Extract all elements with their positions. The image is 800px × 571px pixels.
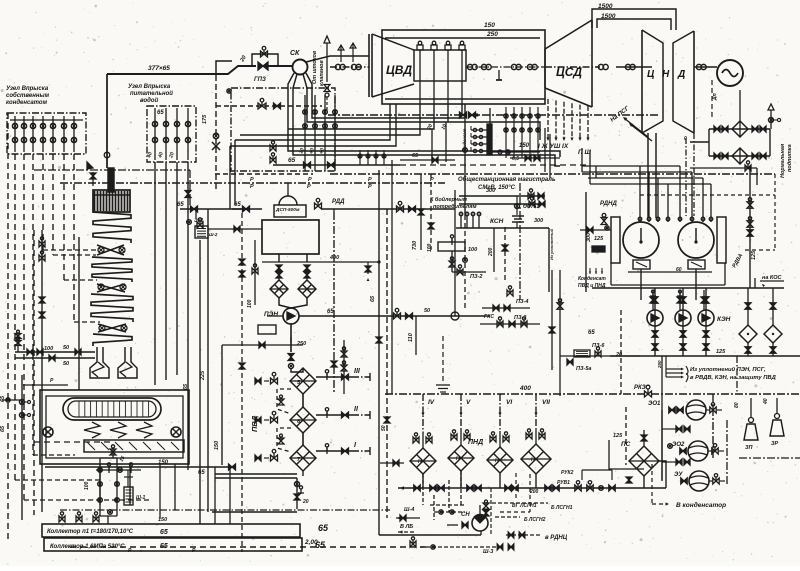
svg-text:100: 100: [44, 346, 53, 352]
svg-text:Общестанционная магистраль: Общестанционная магистраль: [458, 176, 556, 183]
svg-text:40: 40: [763, 398, 769, 405]
svg-text:125: 125: [613, 433, 623, 439]
svg-text:Ш-1: Ш-1: [136, 495, 146, 501]
svg-text:Ш-2: Ш-2: [209, 232, 218, 237]
svg-text:ПЗ-4: ПЗ-4: [516, 299, 528, 305]
svg-text:ЦСД: ЦСД: [556, 65, 582, 79]
svg-text:Узел Впрыска: Узел Впрыска: [128, 84, 171, 90]
svg-text:65: 65: [588, 330, 595, 336]
svg-text:110: 110: [408, 333, 414, 342]
svg-text:ПЗ-6: ПЗ-6: [592, 343, 605, 349]
svg-text:подпитка: подпитка: [787, 144, 793, 172]
svg-text:ЭО1: ЭО1: [648, 401, 661, 407]
svg-text:Н: Н: [495, 458, 499, 464]
svg-text:Ц: Ц: [647, 69, 655, 80]
svg-text:6,5: 6,5: [512, 156, 519, 162]
svg-text:250: 250: [296, 341, 306, 347]
svg-text:65: 65: [198, 470, 205, 476]
svg-text:ДСП-500м: ДСП-500м: [275, 207, 300, 213]
svg-text:Р: Р: [368, 184, 372, 190]
svg-text:377×65: 377×65: [148, 65, 170, 72]
svg-text:0: 0: [684, 136, 687, 142]
svg-text:СК: СК: [290, 50, 300, 57]
svg-text:ЭО2: ЭО2: [672, 442, 685, 448]
svg-text:ВГ ЛСГН1: ВГ ЛСГН1: [512, 503, 537, 509]
svg-text:ЭУ: ЭУ: [674, 472, 683, 478]
svg-text:Из уплотнений: Из уплотнений: [549, 228, 554, 260]
svg-text:на КОС: на КОС: [762, 275, 782, 281]
svg-text:50: 50: [381, 425, 387, 431]
svg-text:225: 225: [200, 370, 206, 381]
svg-text:Ш-3: Ш-3: [483, 549, 493, 555]
svg-text:300: 300: [486, 188, 495, 194]
svg-text:Р: Р: [307, 184, 311, 190]
svg-text:в РДНЦ: в РДНЦ: [545, 535, 568, 541]
svg-text:100: 100: [84, 481, 90, 490]
svg-text:125: 125: [716, 349, 726, 355]
svg-text:Ш-4: Ш-4: [404, 507, 414, 513]
svg-text:ЦВД: ЦВД: [386, 63, 412, 77]
svg-text:Н: Н: [531, 457, 535, 463]
svg-text:200: 200: [657, 360, 662, 369]
svg-text:VI: VI: [506, 399, 512, 406]
svg-text:клапанов: клапанов: [319, 59, 325, 86]
svg-text:100: 100: [427, 243, 433, 252]
svg-text:150: 150: [214, 441, 220, 450]
svg-text:IV: IV: [428, 399, 435, 406]
svg-text:Дп: Дп: [712, 93, 718, 101]
svg-text:ПНД: ПНД: [468, 439, 483, 446]
svg-text:ГПЗ: ГПЗ: [254, 77, 266, 83]
svg-text:100: 100: [247, 299, 253, 308]
svg-text:300: 300: [586, 233, 592, 242]
svg-text:СН: СН: [461, 512, 470, 518]
svg-text:ПЗ-2: ПЗ-2: [470, 274, 482, 280]
svg-text:ЗП: ЗП: [745, 445, 754, 451]
svg-text:В конденсатор: В конденсатор: [676, 501, 726, 509]
svg-text:50: 50: [63, 345, 69, 351]
svg-text:Н: Н: [456, 456, 460, 462]
svg-text:РУК2: РУК2: [561, 470, 574, 476]
svg-text:От штоков: От штоков: [312, 50, 318, 84]
svg-text:50: 50: [63, 361, 69, 367]
svg-text:ПЗ-5а: ПЗ-5а: [576, 366, 591, 372]
svg-text:Р: Р: [368, 177, 372, 183]
svg-text:65: 65: [318, 523, 329, 533]
svg-text:ΘО751: ΘО751: [523, 204, 539, 210]
svg-text:Нормальная: Нормальная: [780, 143, 786, 178]
svg-text:водой: водой: [140, 97, 159, 104]
svg-text:1500: 1500: [601, 13, 616, 20]
svg-text:175: 175: [202, 114, 208, 124]
svg-text:1500: 1500: [598, 3, 613, 10]
svg-text:65: 65: [177, 202, 184, 208]
svg-text:65: 65: [288, 157, 296, 164]
svg-text:730: 730: [412, 241, 418, 250]
svg-text:собственным: собственным: [6, 92, 50, 99]
svg-text:Из уплотнений ПЭН, ПСГ,: Из уплотнений ПЭН, ПСГ,: [690, 366, 766, 373]
svg-text:65: 65: [157, 110, 164, 116]
svg-text:питательной: питательной: [130, 90, 173, 97]
svg-text:65: 65: [183, 383, 189, 390]
svg-text:150: 150: [519, 143, 530, 149]
svg-text:400: 400: [519, 385, 531, 392]
svg-text:К бойлерным: К бойлерным: [430, 196, 467, 203]
svg-text:65: 65: [234, 202, 241, 208]
svg-text:КСН: КСН: [490, 218, 504, 225]
svg-text:2,00: 2,00: [304, 539, 318, 546]
svg-text:125: 125: [751, 250, 757, 260]
svg-text:20: 20: [302, 499, 309, 505]
svg-text:60: 60: [676, 267, 682, 273]
svg-text:Коллектор п1 t=180/170,10°С: Коллектор п1 t=180/170,10°С: [47, 529, 134, 535]
svg-text:РДНД: РДНД: [600, 201, 617, 207]
svg-text:РДД: РДД: [332, 199, 345, 205]
svg-text:80: 80: [734, 402, 740, 408]
svg-text:65: 65: [370, 295, 376, 302]
svg-text:250: 250: [486, 31, 498, 38]
svg-text:65: 65: [0, 425, 6, 432]
svg-text:I Ж УШ IX: I Ж УШ IX: [538, 143, 569, 150]
svg-text:200: 200: [488, 247, 494, 257]
svg-text:Эр1: Эр1: [194, 218, 204, 224]
svg-text:150: 150: [484, 22, 495, 29]
svg-text:Р: Р: [250, 177, 254, 183]
svg-text:300: 300: [534, 218, 543, 224]
svg-text:в РВДВ, КЭН, на защиту ПВД: в РВДВ, КЭН, на защиту ПВД: [690, 375, 777, 381]
svg-text:VII: VII: [542, 399, 550, 406]
svg-text:СМгВ, 150°С: СМгВ, 150°С: [478, 185, 516, 191]
svg-text:Н: Н: [418, 459, 422, 465]
svg-text:65: 65: [327, 309, 334, 315]
svg-text:РУВ1: РУВ1: [557, 480, 570, 486]
svg-text:65: 65: [0, 395, 6, 402]
svg-text:В ЛБ: В ЛБ: [400, 524, 413, 530]
svg-text:ПЭН: ПЭН: [264, 311, 278, 318]
svg-text:125: 125: [594, 236, 604, 242]
svg-text:Конденсат: Конденсат: [578, 276, 606, 282]
svg-text:Н: Н: [662, 69, 670, 80]
svg-text:ЗР: ЗР: [771, 441, 779, 447]
svg-text:конденсатом: конденсатом: [6, 100, 48, 106]
svg-text:Р: Р: [250, 184, 254, 190]
svg-text:65: 65: [160, 529, 168, 536]
svg-text:50: 50: [424, 308, 430, 314]
svg-text:Р: Р: [308, 177, 312, 183]
svg-text:Б ЛСГН2: Б ЛСГН2: [524, 517, 546, 523]
svg-text:Д: Д: [677, 69, 685, 80]
svg-text:ГХС: ГХС: [484, 314, 494, 320]
svg-text:100: 100: [468, 247, 477, 253]
svg-text:КЭН: КЭН: [717, 316, 731, 323]
svg-text:Узел Впрыска: Узел Впрыска: [6, 86, 49, 92]
svg-text:65: 65: [412, 153, 419, 159]
svg-text:Б ЛСГН1: Б ЛСГН1: [551, 505, 573, 511]
svg-text:V: V: [466, 399, 471, 406]
